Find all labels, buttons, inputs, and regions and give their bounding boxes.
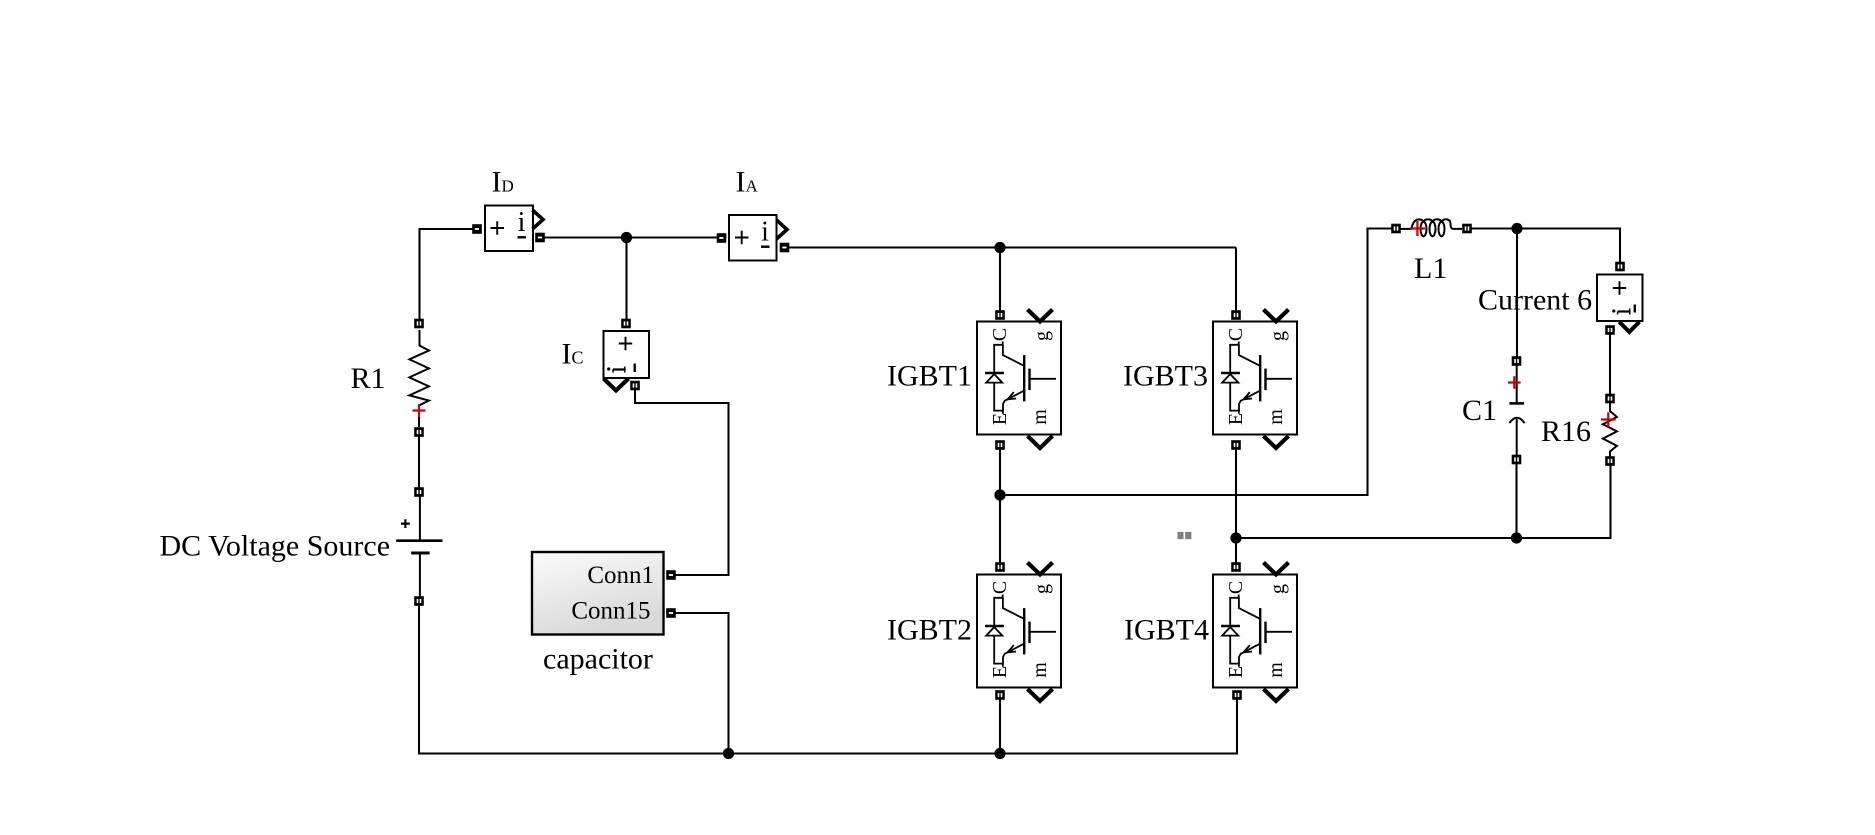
current sensor ID — [472, 206, 545, 252]
node IGBT1/IGBT3 collector junction — [994, 242, 1005, 253]
wire Current6 minus to R16 top — [1609, 330, 1611, 399]
node IGBT2 emitter junction — [994, 748, 1005, 759]
resistor R16 — [1601, 394, 1617, 466]
svg-text:IA: IA — [736, 165, 759, 198]
svg-text:Current 6: Current 6 — [1478, 284, 1592, 317]
subsystem block capacitor — [532, 552, 676, 635]
wire node to IGBT4 collector — [1235, 538, 1237, 567]
node capacitor return junction — [723, 748, 734, 759]
svg-text:C1: C1 — [1462, 394, 1497, 427]
svg-text:IC: IC — [562, 338, 584, 371]
transistor IGBT1 — [977, 310, 1061, 450]
dc voltage source — [396, 487, 442, 606]
node L1/C1 junction — [1511, 223, 1522, 234]
svg-text:ID: ID — [492, 165, 514, 198]
current sensor IA — [717, 215, 790, 261]
svg-text:L1: L1 — [1414, 252, 1447, 285]
wire down to IGBT1 collector — [999, 248, 1001, 316]
wire R1 top to ID input — [420, 229, 478, 324]
node C1 bottom junction — [1511, 532, 1522, 543]
svg-text:IGBT4: IGBT4 — [1124, 614, 1209, 647]
wire IGBT1 emitter to node and to L1 — [1000, 229, 1396, 496]
svg-text:IGBT2: IGBT2 — [887, 614, 972, 647]
svg-text:Conn1: Conn1 — [587, 562, 654, 589]
wire IGBT2 emitter to bottom rail — [999, 695, 1001, 754]
transistor IGBT4 — [1213, 562, 1297, 701]
svg-text:IGBT3: IGBT3 — [1123, 360, 1208, 393]
transistor IGBT3 — [1213, 310, 1297, 450]
wire node to IC top — [625, 238, 627, 324]
current sensor IC — [604, 319, 650, 391]
capacitor C1 — [1508, 356, 1525, 464]
wire C1 bottom to rail — [1515, 460, 1517, 539]
wire node to C1 top — [1516, 229, 1518, 362]
node IGBT1/IGBT2 midpoint junction — [994, 489, 1005, 500]
svg-text:R1: R1 — [351, 362, 386, 395]
svg-text:i: i — [761, 217, 769, 248]
svg-text:i: i — [518, 207, 526, 238]
svg-text:Conn15: Conn15 — [571, 598, 650, 625]
transistor IGBT2 — [977, 562, 1061, 701]
svg-text:IGBT1: IGBT1 — [887, 360, 972, 393]
wire IGBT3 emitter to rail and R16 — [1236, 445, 1611, 538]
node IGBT3/IGBT4 midpoint junction — [1230, 532, 1241, 543]
wire DC source minus to bottom rail to IGBT4 emitter — [419, 601, 1237, 754]
current sensor Current 6 — [1597, 262, 1643, 335]
wire node to IGBT2 collector — [999, 495, 1001, 567]
wire down to IGBT3 collector — [1235, 248, 1237, 316]
resistor R1 — [409, 319, 429, 437]
annotation gray marks — [1178, 532, 1192, 539]
wire Conn15 to bottom rail — [671, 613, 729, 754]
wire R1 bottom to DC source plus — [418, 432, 420, 492]
wire ID output to IA input with node tap — [540, 236, 722, 238]
svg-text:DC Voltage Source: DC Voltage Source — [160, 529, 391, 562]
svg-text:R16: R16 — [1541, 415, 1591, 448]
wire IA output to IGBT1/IGBT3 collectors — [785, 246, 1237, 248]
wire IC bottom to Conn1 — [635, 386, 729, 576]
svg-text:capacitor: capacitor — [543, 643, 653, 676]
node ID/IA/IC junction — [621, 232, 632, 243]
wire L1 right to Current6 plus — [1467, 229, 1620, 267]
inductor L1 — [1391, 219, 1472, 236]
